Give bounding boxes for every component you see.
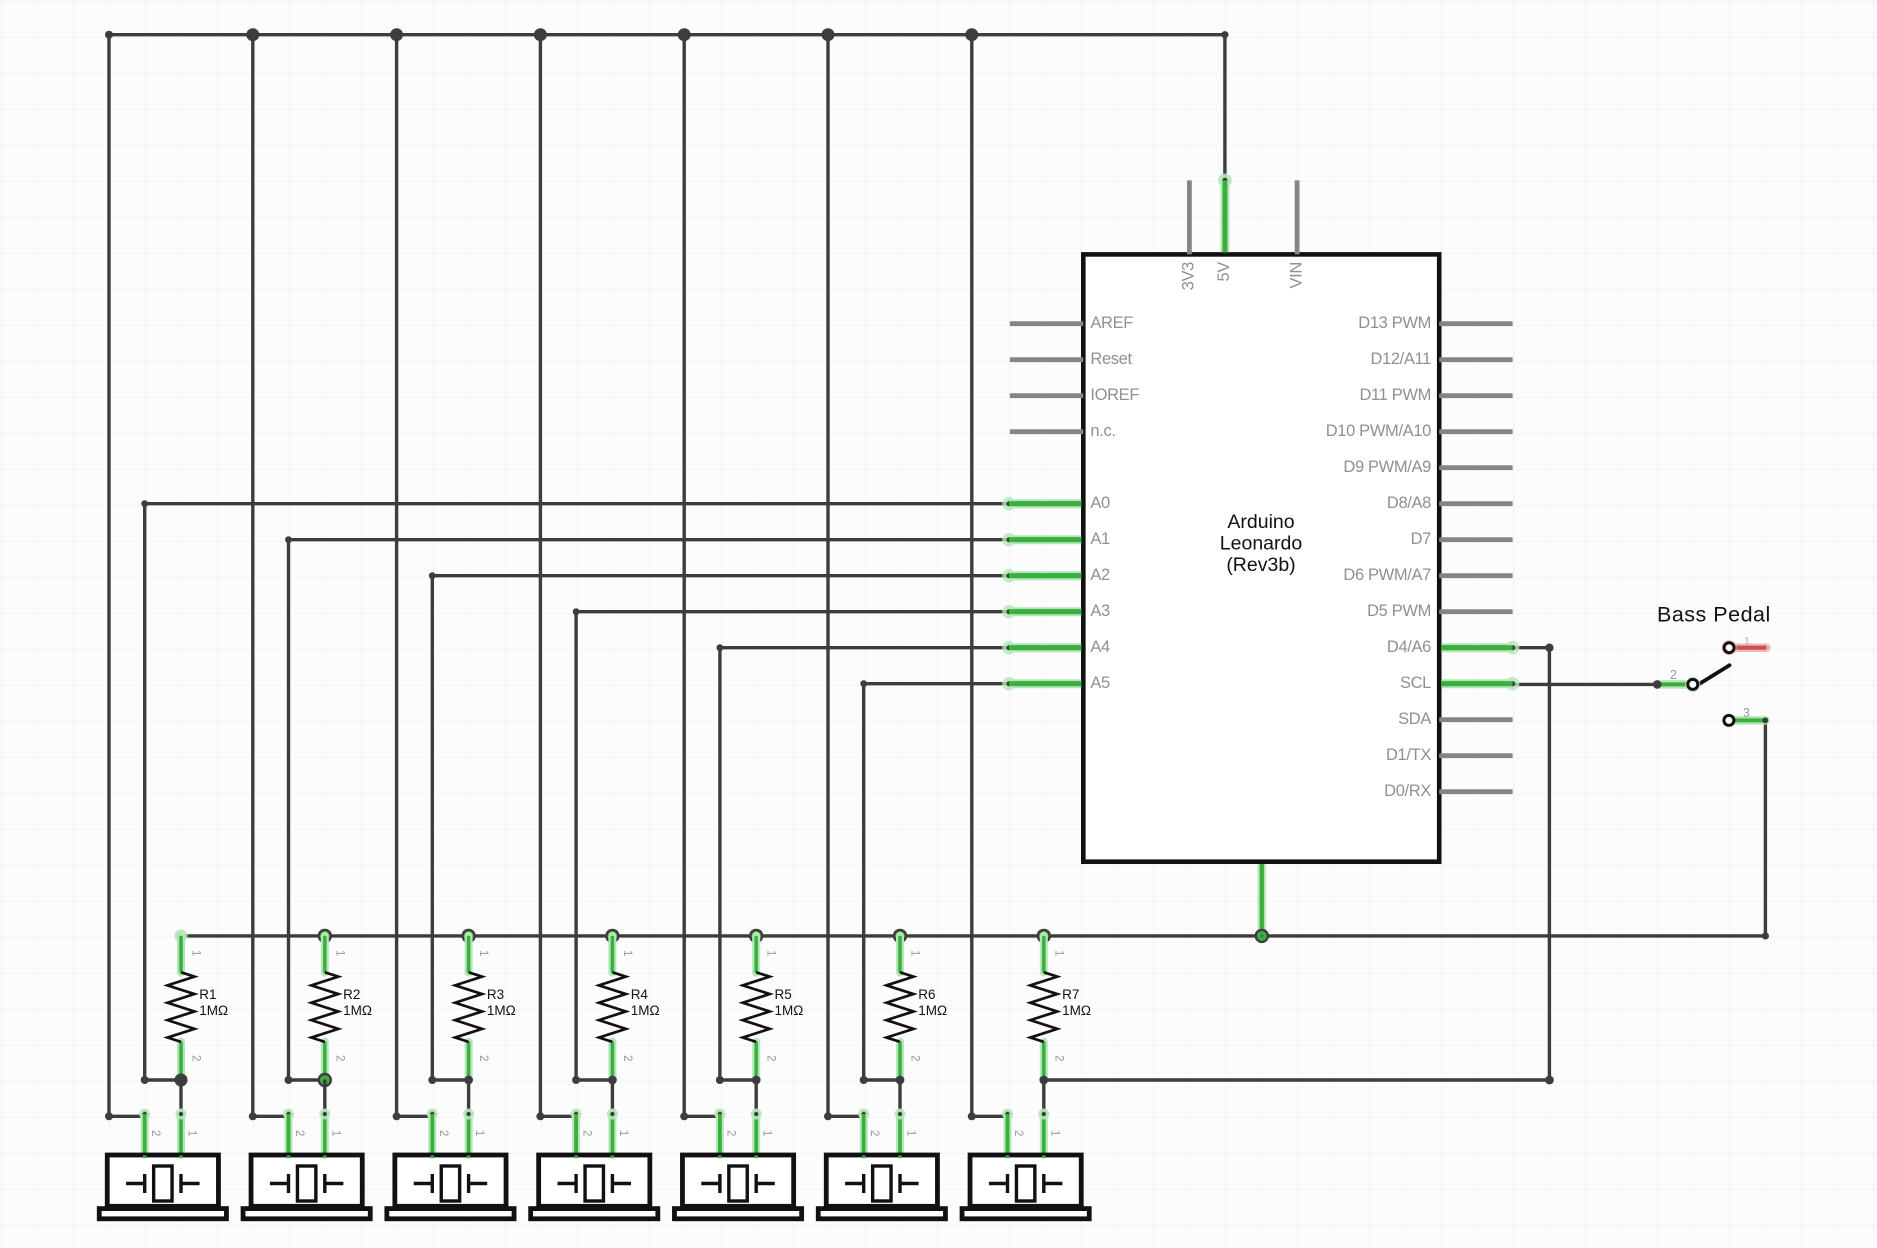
resistor R3 pin 1 number: [477, 950, 489, 956]
wire 5V column to piezo BZ1 pin 2: [105, 35, 145, 1121]
piezo BZ2 pin 1 number: [329, 1130, 341, 1136]
svg-text:1: 1: [477, 950, 489, 956]
svg-text:D10 PWM/A10: D10 PWM/A10: [1326, 422, 1431, 440]
svg-text:A5: A5: [1090, 674, 1110, 692]
svg-text:A4: A4: [1090, 638, 1110, 656]
junction bottom bus resistor R7 pin 1: [1037, 929, 1051, 943]
wire SCL to bass pedal pin 2: [1513, 683, 1658, 686]
piezo BZ3: [387, 1109, 514, 1219]
svg-text:3V3: 3V3: [1180, 262, 1198, 290]
junction node R5 pin 2: [752, 1076, 761, 1085]
pin A1: [1002, 530, 1110, 548]
svg-text:2: 2: [293, 1130, 305, 1136]
wire 5V column to piezo BZ6 pin 2: [824, 35, 864, 1121]
resistor R1 pin 2 number: [190, 1055, 202, 1061]
pin D6 PWM/A7: [1343, 566, 1512, 584]
pin SCL: [1400, 674, 1519, 692]
piezo BZ6: [818, 1109, 945, 1219]
switch S1 lever: [1696, 665, 1730, 686]
switch S1 Bass Pedal title: [1657, 603, 1771, 627]
piezo BZ5 pin 1 number: [761, 1130, 773, 1136]
svg-text:D1/TX: D1/TX: [1386, 746, 1431, 764]
junction node R7 pin 2: [1039, 1076, 1048, 1085]
piezo BZ2: [243, 1109, 370, 1219]
piezo BZ4 pin 2 number: [581, 1130, 593, 1136]
junction node R4 pin 2: [608, 1076, 617, 1085]
svg-text:1: 1: [617, 1130, 629, 1136]
node resistor R1 pin 1 (bus left end): [175, 929, 188, 942]
pin A3: [1002, 602, 1110, 620]
svg-text:3: 3: [1743, 706, 1750, 720]
junction bottom bus resistor R2 pin 1: [318, 929, 332, 943]
svg-text:D5 PWM: D5 PWM: [1367, 602, 1431, 620]
IC U1 title label: [1220, 511, 1303, 576]
piezo BZ6 pin 2 number: [868, 1130, 880, 1136]
resistor R4: [599, 936, 626, 1080]
pin A5: [1002, 674, 1110, 692]
junction top bus column 6: [822, 28, 835, 41]
svg-text:D8/A8: D8/A8: [1387, 494, 1431, 512]
svg-text:2: 2: [1670, 668, 1677, 682]
junction bottom bus resistor R6 pin 1: [893, 929, 907, 943]
svg-text:1MΩ: 1MΩ: [199, 1003, 228, 1018]
pin AREF: [1010, 314, 1133, 332]
wire GND bottom bus horizontal: [181, 932, 1769, 939]
svg-text:D0/RX: D0/RX: [1384, 782, 1431, 800]
wire A1 to resistor R2 pin 2 node: [285, 536, 1010, 1084]
svg-text:2: 2: [621, 1055, 633, 1061]
svg-text:2: 2: [724, 1130, 736, 1136]
svg-text:2: 2: [1052, 1055, 1064, 1061]
switch S1 pin 1: [1722, 640, 1767, 655]
pin n.c.: [1010, 422, 1116, 440]
resistor R6: [887, 936, 914, 1080]
wire A4 to resistor R5 pin 2 node: [716, 644, 1009, 1084]
resistor R2: [311, 936, 338, 1080]
svg-text:D7: D7: [1411, 530, 1432, 548]
wire R2 pin 2 to piezo BZ2 pin 1: [323, 1080, 326, 1115]
junction bottom bus resistor R4 pin 1: [605, 929, 619, 943]
svg-text:2: 2: [868, 1130, 880, 1136]
piezo BZ7 pin 1 number: [1048, 1130, 1060, 1136]
resistor R2 pin 2 number: [333, 1055, 345, 1061]
wire A2 to resistor R3 pin 2 node: [428, 572, 1009, 1084]
svg-text:1: 1: [765, 950, 777, 956]
wire 5V top bus horizontal: [105, 31, 1229, 39]
pin D11 PWM: [1359, 386, 1512, 404]
svg-text:1: 1: [333, 950, 345, 956]
resistor R1 pin 1 number: [190, 950, 202, 956]
svg-text:SDA: SDA: [1398, 710, 1431, 728]
resistor R6 pin 1 number: [909, 950, 921, 956]
svg-text:R5: R5: [775, 987, 792, 1002]
resistor R7: [1030, 936, 1057, 1080]
svg-text:1: 1: [621, 950, 633, 956]
piezo BZ3 pin 1 number: [473, 1130, 485, 1136]
resistor R6 value label: [918, 987, 947, 1018]
svg-text:SCL: SCL: [1400, 674, 1431, 692]
svg-text:Reset: Reset: [1090, 350, 1132, 368]
resistor R6 pin 2 number: [909, 1055, 921, 1061]
resistor R7 pin 2 number: [1052, 1055, 1064, 1061]
svg-text:2: 2: [437, 1130, 449, 1136]
pin D9 PWM/A9: [1343, 458, 1512, 476]
wire A3 to resistor R4 pin 2 node: [572, 608, 1009, 1084]
svg-text:VIN: VIN: [1287, 262, 1305, 288]
junction top bus column 2: [246, 28, 259, 41]
svg-text:R3: R3: [487, 987, 504, 1002]
svg-text:1: 1: [905, 1130, 917, 1136]
wire R1 pin 2 to piezo BZ1 pin 1: [179, 1080, 182, 1115]
svg-text:A3: A3: [1090, 602, 1110, 620]
resistor R1 value label: [199, 987, 228, 1018]
svg-text:2: 2: [333, 1055, 345, 1061]
svg-text:1: 1: [1048, 1130, 1060, 1136]
wire R6 pin 2 to piezo BZ6 pin 1: [898, 1080, 901, 1115]
resistor R1: [168, 936, 195, 1080]
resistor R3 value label: [487, 987, 516, 1018]
wire D4/A6 to R7 pin 2 node: [1044, 644, 1554, 1085]
resistor R7 pin 1 number: [1052, 950, 1064, 956]
svg-text:R6: R6: [918, 987, 935, 1002]
resistor R2 value label: [343, 987, 372, 1018]
wire R4 pin 2 to piezo BZ4 pin 1: [611, 1080, 614, 1115]
svg-text:A0: A0: [1090, 494, 1110, 512]
wire GND pin to bottom bus: [1258, 864, 1267, 936]
junction bottom bus GND: [1255, 929, 1269, 943]
pin A0: [1002, 494, 1110, 512]
svg-text:A2: A2: [1090, 566, 1110, 584]
pin 3V3: [1180, 180, 1198, 290]
svg-text:1: 1: [186, 1130, 198, 1136]
piezo BZ7: [962, 1109, 1089, 1219]
wire bass pedal pin 3 to bottom bus: [1764, 720, 1767, 936]
switch S1 pin 3: [1724, 715, 1768, 725]
pin D8/A8: [1387, 494, 1513, 512]
wire R7 pin 2 to piezo BZ7 pin 1: [1042, 1080, 1045, 1115]
resistor R5 pin 1 number: [765, 950, 777, 956]
svg-text:R7: R7: [1062, 987, 1079, 1002]
svg-text:1: 1: [190, 950, 202, 956]
pin D5 PWM: [1367, 602, 1513, 620]
svg-text:2: 2: [477, 1055, 489, 1061]
svg-text:Leonardo: Leonardo: [1220, 533, 1303, 555]
wire A0 to resistor R1 pin 2 node: [141, 500, 1009, 1084]
wire 5V column to piezo BZ4 pin 2: [536, 35, 576, 1121]
resistor R5 value label: [775, 987, 804, 1018]
junction top bus column 3: [390, 28, 403, 41]
resistor R5 pin 2 number: [765, 1055, 777, 1061]
pin A2: [1002, 566, 1110, 584]
piezo BZ2 pin 2 number: [293, 1130, 305, 1136]
svg-text:1MΩ: 1MΩ: [631, 1003, 660, 1018]
resistor R7 value label: [1062, 987, 1091, 1018]
junction node R2 pin 2: [318, 1073, 332, 1087]
pin SDA: [1398, 710, 1512, 728]
junction bottom bus resistor R3 pin 1: [461, 929, 475, 943]
svg-text:D4/A6: D4/A6: [1387, 638, 1431, 656]
pin D0/RX: [1384, 782, 1512, 800]
wire R3 pin 2 to piezo BZ3 pin 1: [467, 1080, 470, 1115]
svg-text:R2: R2: [343, 987, 360, 1002]
resistor R3: [455, 936, 482, 1080]
switch S1 pin 1 number: [1744, 635, 1750, 647]
pin Reset: [1010, 350, 1133, 368]
svg-text:1: 1: [473, 1130, 485, 1136]
piezo BZ4 pin 1 number: [617, 1130, 629, 1136]
junction node R3 pin 2: [464, 1076, 473, 1085]
pin D13 PWM: [1358, 314, 1512, 332]
svg-text:1: 1: [1744, 635, 1750, 647]
svg-text:1: 1: [761, 1130, 773, 1136]
piezo BZ5 pin 2 number: [724, 1130, 736, 1136]
resistor R5: [743, 936, 770, 1080]
junction node R1 pin 2: [175, 1074, 188, 1087]
svg-text:R1: R1: [199, 987, 216, 1002]
svg-text:D11 PWM: D11 PWM: [1359, 386, 1431, 404]
junction top bus column 4: [534, 28, 547, 41]
resistor R2 pin 1 number: [333, 950, 345, 956]
svg-text:1MΩ: 1MΩ: [487, 1003, 516, 1018]
piezo BZ1 pin 2 number: [149, 1130, 161, 1136]
svg-text:IOREF: IOREF: [1090, 386, 1139, 404]
svg-text:D13 PWM: D13 PWM: [1358, 314, 1431, 332]
pin D4/A6: [1387, 638, 1520, 656]
resistor R4 value label: [631, 987, 660, 1018]
wire R5 pin 2 to piezo BZ5 pin 1: [755, 1080, 758, 1115]
svg-text:1MΩ: 1MΩ: [775, 1003, 804, 1018]
junction top bus column 5: [678, 28, 691, 41]
pin D1/TX: [1386, 746, 1513, 764]
pin D10 PWM/A10: [1326, 422, 1513, 440]
resistor R4 pin 2 number: [621, 1055, 633, 1061]
svg-text:AREF: AREF: [1090, 314, 1133, 332]
wire top bus to 5V pin: [1223, 35, 1226, 181]
junction node R6 pin 2: [896, 1076, 905, 1085]
pin D7: [1411, 530, 1513, 548]
pin VIN: [1287, 180, 1305, 288]
svg-text:D12/A11: D12/A11: [1370, 350, 1431, 368]
pin 5V: [1215, 174, 1233, 282]
resistor R4 pin 1 number: [621, 950, 633, 956]
svg-text:n.c.: n.c.: [1090, 422, 1115, 440]
svg-text:2: 2: [1012, 1130, 1024, 1136]
svg-text:R4: R4: [631, 987, 649, 1002]
svg-text:1: 1: [329, 1130, 341, 1136]
piezo BZ5: [674, 1109, 801, 1219]
svg-text:1MΩ: 1MΩ: [918, 1003, 947, 1018]
IC U1 Arduino Leonardo body: [1083, 254, 1439, 861]
piezo BZ1: [99, 1109, 226, 1219]
wire 5V column to piezo BZ2 pin 2: [249, 35, 289, 1121]
piezo BZ1 pin 1 number: [186, 1130, 198, 1136]
svg-text:1MΩ: 1MΩ: [1062, 1003, 1091, 1018]
svg-text:2: 2: [190, 1055, 202, 1061]
piezo BZ7 pin 2 number: [1012, 1130, 1024, 1136]
svg-text:2: 2: [909, 1055, 921, 1061]
resistor R3 pin 2 number: [477, 1055, 489, 1061]
piezo BZ4: [531, 1109, 658, 1219]
svg-text:D9 PWM/A9: D9 PWM/A9: [1343, 458, 1431, 476]
switch S1 pin 2 number: [1670, 668, 1677, 682]
junction top bus column 7: [965, 28, 978, 41]
svg-text:(Rev3b): (Rev3b): [1226, 554, 1295, 576]
wire 5V column to piezo BZ5 pin 2: [680, 35, 720, 1121]
svg-text:1: 1: [1052, 950, 1064, 956]
svg-text:Arduino: Arduino: [1227, 511, 1294, 533]
wire 5V column to piezo BZ3 pin 2: [393, 35, 433, 1121]
svg-text:2: 2: [149, 1130, 161, 1136]
svg-text:A1: A1: [1090, 530, 1110, 548]
svg-text:Bass Pedal: Bass Pedal: [1657, 603, 1771, 627]
pin D12/A11: [1370, 350, 1512, 368]
svg-text:1: 1: [909, 950, 921, 956]
wire A5 to resistor R6 pin 2 node: [860, 680, 1009, 1084]
switch S1 pin 3 number: [1743, 706, 1750, 720]
svg-text:2: 2: [765, 1055, 777, 1061]
wire 5V column to piezo BZ7 pin 2: [968, 35, 1008, 1121]
switch S1 pin 2: [1653, 677, 1700, 692]
piezo BZ3 pin 2 number: [437, 1130, 449, 1136]
pin A4: [1002, 638, 1110, 656]
piezo BZ6 pin 1 number: [905, 1130, 917, 1136]
pin IOREF: [1010, 386, 1139, 404]
svg-text:2: 2: [581, 1130, 593, 1136]
svg-text:5V: 5V: [1215, 262, 1233, 282]
svg-text:D6 PWM/A7: D6 PWM/A7: [1343, 566, 1431, 584]
junction bottom bus resistor R5 pin 1: [749, 929, 763, 943]
svg-text:1MΩ: 1MΩ: [343, 1003, 372, 1018]
